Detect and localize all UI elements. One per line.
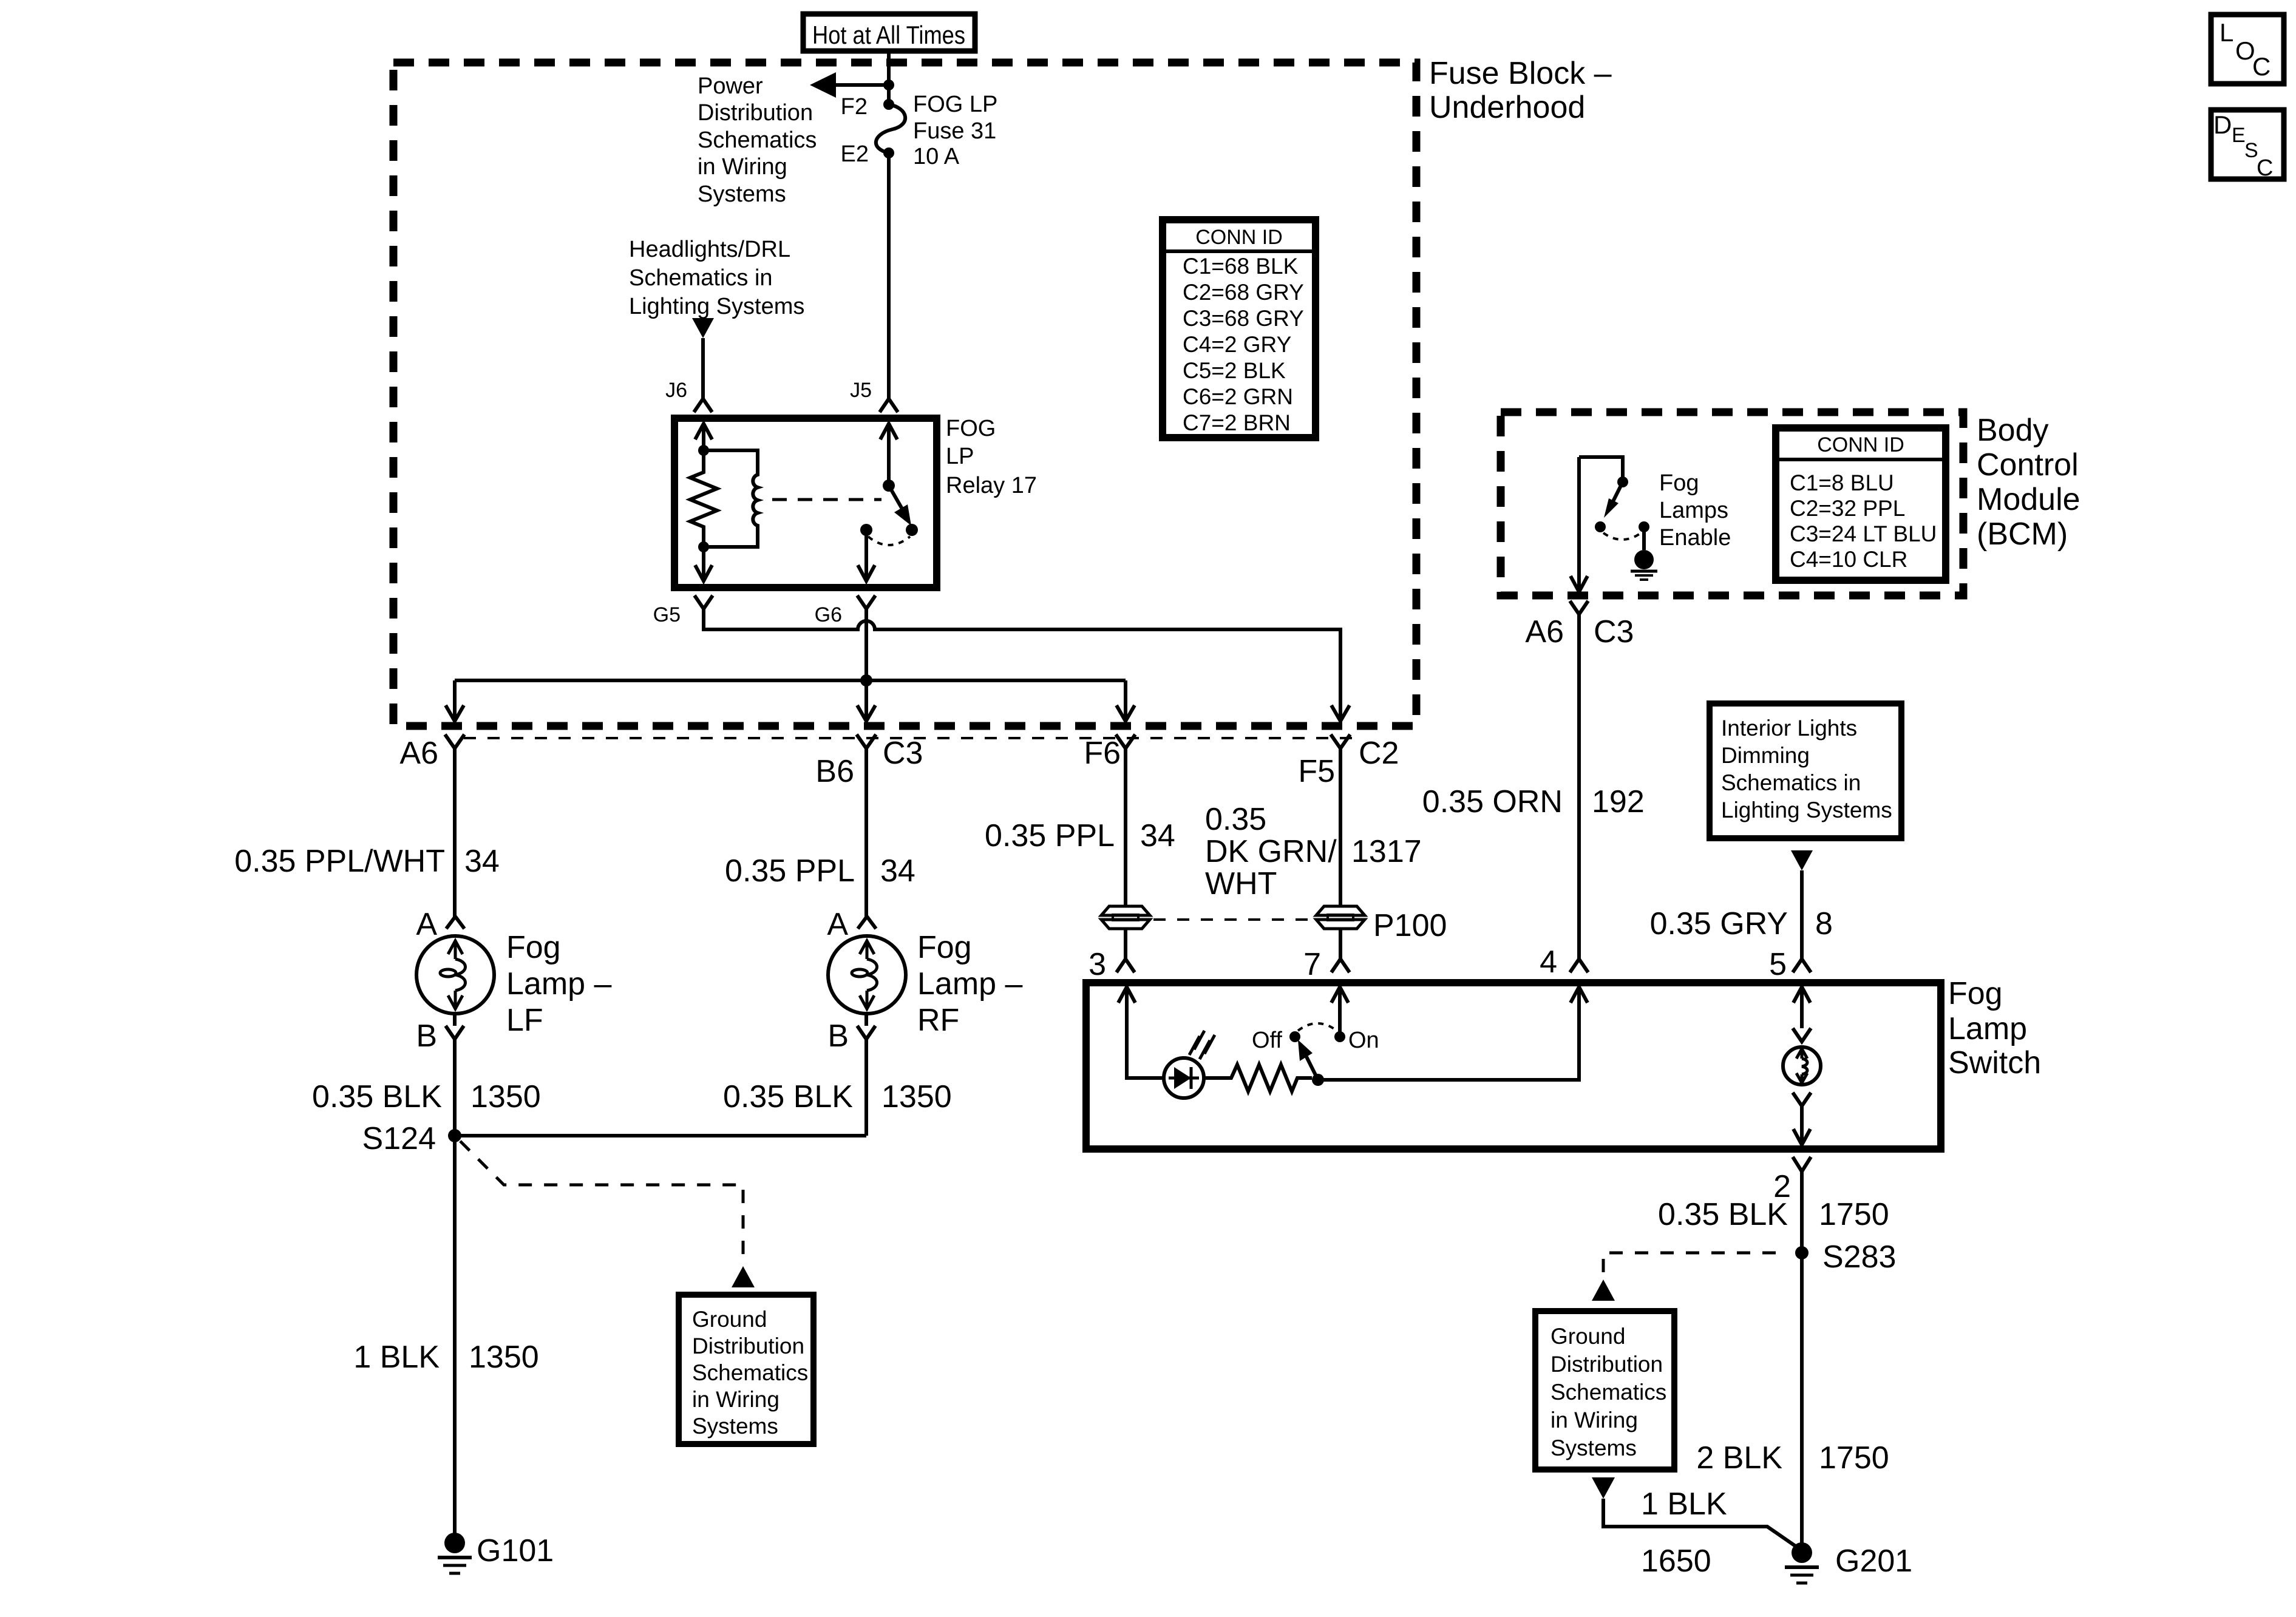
svg-text:D: D — [2213, 110, 2232, 139]
svg-text:Schematics: Schematics — [698, 127, 817, 153]
svg-text:CONN ID: CONN ID — [1817, 433, 1904, 456]
triangle below ground distribution (right) — [1592, 1477, 1615, 1499]
svg-text:10 A: 10 A — [913, 144, 960, 169]
connector chevron pin 7 — [1331, 959, 1350, 972]
relay actuation dashed line — [772, 498, 881, 501]
wire F6 down to P100 — [1124, 748, 1127, 906]
fuse block underhood dashed box — [393, 63, 1416, 726]
dashed link S124 to ground distribution note — [460, 1141, 743, 1265]
svg-text:C2=68 GRY: C2=68 GRY — [1183, 280, 1304, 305]
chevron above dimmer lamp — [1793, 1028, 1811, 1042]
dashed throw arc Off-On — [1298, 1023, 1337, 1031]
svg-text:G6: G6 — [815, 603, 842, 626]
wire C2 down to P100 — [1339, 748, 1342, 906]
svg-text:1317: 1317 — [1351, 834, 1422, 869]
wire label 1 BLK 1350 — [353, 1340, 538, 1375]
arrow into fuse block border at C2 — [1331, 705, 1350, 721]
relay G5 exit arrow — [695, 547, 712, 581]
node relay coil bottom — [698, 541, 709, 552]
svg-text:C7=2 BRN: C7=2 BRN — [1183, 410, 1291, 435]
svg-text:Lighting Systems: Lighting Systems — [629, 294, 804, 319]
connector chevron G5 — [695, 595, 713, 609]
svg-text:Fog: Fog — [506, 930, 561, 965]
svg-text:A6: A6 — [1525, 614, 1564, 649]
svg-text:J6: J6 — [665, 379, 687, 402]
wire from fuse E2 down to relay J5 — [887, 153, 891, 398]
svg-text:S283: S283 — [1822, 1239, 1896, 1275]
svg-text:Lamp –: Lamp – — [917, 966, 1023, 1002]
wire down to F6 with arrow — [1116, 680, 1135, 721]
connector chevron C2 — [1331, 734, 1350, 748]
svg-text:LF: LF — [506, 1003, 543, 1038]
svg-text:0.35 PPL: 0.35 PPL — [725, 853, 855, 889]
connector chevron pin 4 — [1570, 959, 1588, 972]
svg-text:Lamps: Lamps — [1659, 498, 1728, 523]
svg-text:Systems: Systems — [1550, 1436, 1637, 1460]
label Fog Lamp - RF — [917, 930, 1023, 1038]
wire label 0.35 PPL 34 (RF) — [725, 853, 915, 889]
label Power Distribution Schematics in Wiring Systems — [698, 73, 817, 207]
ground G201 — [1785, 1542, 1819, 1583]
svg-text:Interior Lights: Interior Lights — [1721, 716, 1857, 741]
svg-text:A: A — [827, 907, 848, 942]
BCM dashed box — [1501, 412, 1963, 595]
relay contact node left — [860, 524, 872, 536]
svg-text:1 BLK: 1 BLK — [1641, 1486, 1727, 1522]
label Fog Lamp Switch — [1948, 976, 2041, 1080]
svg-text:C: C — [2252, 52, 2271, 81]
svg-text:CONN ID: CONN ID — [1195, 226, 1283, 249]
fog lamp switch box — [1086, 983, 1941, 1149]
svg-text:WHT: WHT — [1205, 866, 1277, 901]
wire from Hot at All Times down to fuse — [887, 51, 891, 104]
wire label 2 BLK 1750 — [1696, 1440, 1889, 1476]
connector chevron F6 — [1116, 734, 1135, 748]
svg-text:192: 192 — [1592, 784, 1645, 819]
switch pin 5 entry arrow — [1793, 987, 1810, 1028]
svg-text:Fuse Block –: Fuse Block – — [1429, 56, 1612, 91]
wire from triangle down to relay J6 — [701, 338, 705, 398]
svg-text:Headlights/DRL: Headlights/DRL — [629, 237, 790, 262]
svg-text:Schematics in: Schematics in — [1721, 770, 1861, 795]
svg-text:Distribution: Distribution — [698, 100, 813, 126]
ground distribution schematics box (left) — [679, 1295, 813, 1444]
svg-text:C2: C2 — [1359, 736, 1399, 771]
svg-text:1350: 1350 — [469, 1340, 539, 1375]
svg-text:Systems: Systems — [698, 181, 786, 207]
svg-text:Hot at All Times: Hot at All Times — [812, 21, 965, 49]
splice node S283 — [1795, 1246, 1809, 1259]
svg-text:Fog: Fog — [1659, 470, 1699, 496]
triangle to ground distribution (left) — [732, 1266, 755, 1287]
label Fuse Block - Underhood — [1429, 56, 1612, 125]
svg-text:1350: 1350 — [881, 1079, 952, 1114]
svg-text:C4=10 CLR: C4=10 CLR — [1790, 547, 1907, 572]
fuse FOG LP Fuse 31 10A — [876, 99, 905, 158]
svg-text:Systems: Systems — [692, 1414, 778, 1439]
wire down to A6 with arrow — [446, 680, 464, 721]
BCM fog lamps enable switch feed wire — [1579, 457, 1623, 482]
dimmer illumination lamp — [1783, 1047, 1821, 1085]
svg-text:Fog: Fog — [1948, 976, 2003, 1011]
svg-text:1350: 1350 — [470, 1079, 541, 1114]
svg-text:34: 34 — [1140, 818, 1175, 853]
svg-text:Ground: Ground — [692, 1307, 767, 1332]
wire B LF down to S124 — [453, 1039, 457, 1136]
splice node S124 — [448, 1129, 461, 1142]
splice wire RF to S124 — [455, 1134, 866, 1137]
label FOG LP Relay 17 — [946, 416, 1037, 498]
svg-text:Lamp: Lamp — [1948, 1011, 2027, 1046]
connector chevron A6 C3 (BCM) — [1570, 601, 1588, 614]
svg-text:0.35 PPL/WHT: 0.35 PPL/WHT — [234, 844, 445, 879]
svg-text:C1=8 BLU: C1=8 BLU — [1790, 470, 1894, 495]
wire label 0.35 ORN 192 — [1422, 784, 1645, 819]
svg-text:5: 5 — [1769, 947, 1787, 982]
BCM contact node left — [1595, 521, 1606, 532]
label Body Control Module (BCM) — [1977, 413, 2080, 552]
svg-text:L: L — [2220, 18, 2233, 47]
connector chevron J6 — [694, 399, 712, 412]
svg-text:1650: 1650 — [1641, 1544, 1711, 1579]
fuse value label — [913, 92, 997, 169]
svg-text:RF: RF — [917, 1003, 959, 1038]
contact node On — [1334, 1031, 1345, 1042]
wire label 0.35 DK GRN/WHT 1317 — [1205, 802, 1422, 901]
wire to power distribution (arrow left) — [810, 72, 889, 98]
arrow into fuse block border at C3 — [857, 705, 875, 721]
svg-text:Module: Module — [1977, 482, 2080, 517]
relay coil — [704, 450, 758, 547]
connector chevron pin 3 — [1116, 959, 1135, 972]
switch pin 3 entry arrow and wire to LED — [1118, 987, 1164, 1078]
BCM output wire to border arrow — [1571, 457, 1588, 592]
fog lamp LF — [416, 748, 494, 1014]
relay contact dashed arc — [868, 537, 910, 545]
ground distribution schematics box (right) — [1535, 1311, 1674, 1470]
svg-text:C: C — [2257, 155, 2273, 181]
BCM switch pivot node — [1617, 476, 1628, 487]
node junction at power feed — [883, 80, 894, 90]
connector chevron A RF — [858, 917, 876, 929]
svg-text:Power: Power — [698, 73, 763, 99]
svg-text:P100: P100 — [1373, 908, 1447, 943]
svg-text:in Wiring: in Wiring — [692, 1387, 779, 1412]
wire P100 to switch pin 3 — [1124, 929, 1127, 959]
connector chevron pin 5 — [1793, 959, 1811, 972]
svg-text:J5: J5 — [850, 379, 872, 402]
svg-text:(BCM): (BCM) — [1977, 517, 2068, 552]
connector chevron pin 2 — [1793, 1157, 1811, 1171]
node relay coil top — [698, 445, 709, 456]
wire P100 to switch pin 7 — [1339, 929, 1342, 959]
svg-text:in Wiring: in Wiring — [698, 154, 787, 180]
svg-text:E2: E2 — [841, 141, 869, 167]
inline connector P100 (right half) — [1316, 906, 1365, 929]
BCM CONN ID table — [1776, 428, 1946, 580]
chevron below dimmer lamp — [1793, 1093, 1811, 1106]
connector chevron A LF — [446, 917, 464, 929]
svg-text:Distribution: Distribution — [692, 1334, 804, 1358]
relay G6 exit arrow — [858, 530, 875, 581]
wire On contact up to pin 7 — [1331, 987, 1348, 1037]
wire S124 down to G101 — [453, 1136, 457, 1543]
svg-text:2 BLK: 2 BLK — [1696, 1440, 1782, 1476]
LED indicator — [1164, 1058, 1204, 1098]
svg-text:0.35 PPL: 0.35 PPL — [985, 818, 1115, 853]
triangle from interior lights box — [1791, 850, 1813, 870]
svg-text:1750: 1750 — [1819, 1440, 1889, 1476]
dashed pairing line P100 — [1153, 918, 1316, 921]
wire to switch pin 5 — [1800, 870, 1804, 959]
svg-text:in Wiring: in Wiring — [1550, 1408, 1638, 1432]
wire label 0.35 BLK 1350 (RF) — [723, 1079, 952, 1114]
connector chevron C3 — [857, 734, 876, 748]
switch pivot node — [1312, 1074, 1324, 1086]
svg-text:34: 34 — [880, 853, 915, 889]
svg-text:34: 34 — [464, 844, 500, 879]
LOC tab box — [2211, 15, 2284, 84]
svg-text:FOG: FOG — [946, 416, 996, 441]
svg-text:0.35 BLK: 0.35 BLK — [1658, 1197, 1788, 1232]
BCM contact dashed arc — [1603, 533, 1641, 540]
contact node Off — [1289, 1031, 1300, 1042]
svg-text:F6: F6 — [1084, 736, 1121, 771]
resistor (switch illumination) — [1204, 1065, 1312, 1091]
svg-text:8: 8 — [1815, 906, 1833, 941]
svg-text:0.35: 0.35 — [1205, 802, 1266, 837]
svg-text:B6: B6 — [815, 754, 854, 789]
fog lamp RF — [828, 748, 906, 1014]
svg-text:Ground: Ground — [1550, 1324, 1625, 1349]
svg-text:Fog: Fog — [917, 930, 972, 965]
wire dimmer lamp to pin 2 exit arrow — [1793, 1106, 1810, 1145]
svg-text:C3: C3 — [883, 736, 923, 771]
switch arm with arrowhead — [1298, 1040, 1318, 1080]
svg-text:Switch: Switch — [1948, 1045, 2041, 1080]
svg-text:C3=68 GRY: C3=68 GRY — [1183, 306, 1304, 331]
connector chevron J5 — [880, 399, 898, 412]
svg-text:Off: Off — [1252, 1028, 1282, 1053]
svg-text:Dimming: Dimming — [1721, 743, 1810, 768]
svg-text:A6: A6 — [399, 736, 438, 771]
relay box — [674, 418, 937, 588]
resistor (relay) — [690, 450, 717, 547]
junction node on G6 wire — [860, 674, 872, 686]
svg-text:Schematics: Schematics — [1550, 1380, 1666, 1405]
svg-text:0.35 BLK: 0.35 BLK — [312, 1079, 442, 1114]
BCM contact node right — [1639, 521, 1649, 532]
relay switch pivot node — [883, 480, 895, 492]
svg-text:On: On — [1348, 1028, 1379, 1053]
relay switch arm with arrowhead — [889, 486, 911, 526]
svg-text:4: 4 — [1540, 944, 1557, 980]
svg-text:A: A — [416, 907, 437, 942]
svg-text:C1=68 BLK: C1=68 BLK — [1183, 254, 1299, 279]
svg-text:B: B — [827, 1019, 849, 1054]
svg-text:Schematics in: Schematics in — [629, 265, 773, 291]
horizontal feed wire to A6 and F6 — [455, 679, 1126, 682]
wire label 0.35 PPL 34 (F6) — [985, 818, 1175, 853]
svg-text:C4=2 GRY: C4=2 GRY — [1183, 332, 1291, 357]
interior lights dimming schematics box — [1710, 703, 1901, 838]
label Headlights/DRL Schematics in Lighting Systems — [629, 237, 804, 319]
DESC tab box — [2211, 110, 2284, 181]
relay pin J6 entry arrow — [695, 424, 712, 450]
svg-text:G101: G101 — [477, 1533, 554, 1568]
svg-text:Lamp –: Lamp – — [506, 966, 612, 1002]
Hot at All Times box — [803, 14, 975, 51]
label Fog Lamps Enable — [1659, 470, 1731, 551]
svg-text:F2: F2 — [841, 94, 868, 120]
svg-text:F5: F5 — [1298, 754, 1335, 789]
svg-text:Fuse 31: Fuse 31 — [913, 118, 996, 144]
svg-text:DK GRN/: DK GRN/ — [1205, 834, 1337, 869]
svg-text:1750: 1750 — [1819, 1197, 1889, 1232]
triangle from headlights schematic — [692, 318, 714, 338]
triangle to ground distribution (right) — [1592, 1280, 1615, 1301]
wire G6 down through junction — [864, 609, 868, 721]
wire label 0.35 BLK 1350 (LF) — [312, 1079, 541, 1114]
wire BCM C3 down to switch pin 4 — [1577, 614, 1581, 959]
svg-text:1 BLK: 1 BLK — [353, 1340, 440, 1375]
dashed link S283 to ground distribution note — [1603, 1253, 1776, 1278]
wire 1 BLK 1650 to G201 — [1603, 1499, 1801, 1550]
svg-text:FOG LP: FOG LP — [913, 92, 997, 117]
svg-text:Enable: Enable — [1659, 525, 1731, 551]
wire G5 to C2 with hop over G6 wire — [704, 609, 1340, 721]
svg-text:3: 3 — [1089, 947, 1106, 982]
svg-text:0.35 BLK: 0.35 BLK — [723, 1079, 853, 1114]
svg-text:C3: C3 — [1594, 614, 1634, 649]
thin dashed connector line — [464, 737, 1353, 739]
svg-text:Underhood: Underhood — [1429, 90, 1585, 125]
svg-text:C6=2 GRN: C6=2 GRN — [1183, 384, 1293, 409]
BCM internal ground — [1631, 527, 1657, 580]
BCM switch arm with arrowhead — [1604, 482, 1623, 518]
svg-text:C2=32 PPL: C2=32 PPL — [1790, 496, 1905, 521]
inline connector P100 (left half) — [1101, 906, 1150, 929]
connector chevron A6 — [445, 734, 464, 748]
wire pivot to pin 4 — [1318, 987, 1588, 1080]
LED light rays — [1189, 1031, 1215, 1059]
wire pin 2 down to S283 — [1800, 1171, 1804, 1253]
svg-text:C3=24 LT BLU: C3=24 LT BLU — [1790, 521, 1937, 546]
svg-text:G201: G201 — [1835, 1544, 1912, 1579]
svg-text:Relay 17: Relay 17 — [946, 473, 1037, 498]
wire label 0.35 GRY 8 — [1650, 906, 1833, 941]
svg-text:7: 7 — [1303, 947, 1321, 982]
svg-text:Schematics: Schematics — [692, 1360, 808, 1385]
svg-text:S124: S124 — [362, 1121, 436, 1156]
svg-text:LP: LP — [946, 444, 974, 469]
fuse block CONN ID table — [1163, 220, 1316, 438]
svg-text:G5: G5 — [653, 603, 681, 626]
label Fog Lamp - LF — [506, 930, 612, 1038]
relay contact node right — [906, 524, 918, 536]
connector chevron G6 — [857, 595, 875, 609]
svg-text:Distribution: Distribution — [1550, 1352, 1663, 1377]
wire B RF down to splice bus — [864, 1039, 868, 1136]
relay pin J5 entry arrow — [880, 424, 897, 486]
svg-text:0.35 ORN: 0.35 ORN — [1422, 784, 1563, 819]
svg-text:Lighting Systems: Lighting Systems — [1721, 798, 1892, 822]
svg-text:E: E — [2232, 124, 2246, 147]
wire label 0.35 PPL/WHT 34 — [234, 844, 500, 879]
ground G101 — [438, 1533, 472, 1573]
svg-text:C5=2 BLK: C5=2 BLK — [1183, 358, 1286, 383]
svg-text:Control: Control — [1977, 447, 2079, 483]
svg-text:B: B — [416, 1019, 437, 1054]
connector chevron B LF — [446, 1014, 464, 1039]
wire S283 down to G201 — [1800, 1253, 1804, 1543]
svg-text:0.35 GRY: 0.35 GRY — [1650, 906, 1788, 941]
wire label 0.35 BLK 1750 — [1658, 1197, 1889, 1232]
svg-text:Body: Body — [1977, 413, 2049, 448]
connector chevron B RF — [857, 1014, 875, 1039]
